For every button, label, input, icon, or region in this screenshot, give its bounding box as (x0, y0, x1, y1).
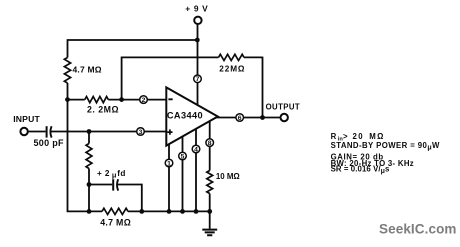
svg-text:SeekIC.com: SeekIC.com (379, 221, 457, 236)
svg-text:22MΩ: 22MΩ (219, 64, 245, 73)
svg-text:4: 4 (194, 146, 198, 153)
svg-text:INPUT: INPUT (13, 114, 40, 124)
svg-text:7: 7 (196, 76, 200, 83)
svg-text:5: 5 (181, 153, 185, 160)
svg-text:STAND-BY POWER = 90μW: STAND-BY POWER = 90μW (331, 141, 440, 151)
svg-text:2: 2 (142, 97, 146, 104)
svg-text:500 pF: 500 pF (34, 138, 65, 148)
svg-text:4.7 MΩ: 4.7 MΩ (100, 218, 131, 228)
svg-text:2. 2MΩ: 2. 2MΩ (87, 105, 119, 115)
svg-text:+ 2μfd: + 2μfd (97, 169, 126, 179)
svg-text:10 MΩ: 10 MΩ (216, 172, 240, 181)
svg-text:CA3440: CA3440 (167, 110, 203, 120)
svg-text:6: 6 (238, 115, 242, 122)
svg-text:OUTPUT: OUTPUT (266, 103, 300, 112)
svg-text:+ 9 V: + 9 V (185, 3, 208, 13)
svg-text:3: 3 (139, 129, 143, 136)
svg-text:4.7 MΩ: 4.7 MΩ (73, 65, 102, 75)
svg-text:1: 1 (167, 160, 171, 167)
svg-text:8: 8 (208, 140, 212, 147)
